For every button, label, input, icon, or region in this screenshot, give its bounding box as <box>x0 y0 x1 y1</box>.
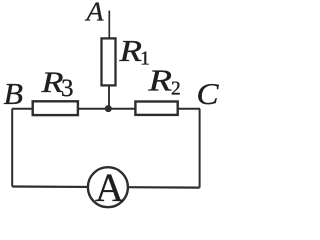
wire left branch: B down to bottom <box>11 109 13 187</box>
svg-text:2: 2 <box>171 79 181 100</box>
svg-text:R: R <box>118 34 142 68</box>
svg-text:A: A <box>84 0 104 27</box>
svg-text:A: A <box>95 165 124 210</box>
svg-text:B: B <box>4 77 24 111</box>
junction node dot <box>105 105 112 112</box>
resistor R2 <box>135 102 177 115</box>
resistor R1 <box>102 38 116 85</box>
ammeter A1 circle <box>88 167 128 207</box>
wire R1 bottom to junction node <box>108 85 110 109</box>
wire bottom through ammeter <box>12 187 199 188</box>
wire node B to node C (horizontal middle wire) <box>12 108 200 110</box>
svg-text:R: R <box>147 63 172 98</box>
resistor R3 <box>33 101 78 115</box>
svg-text:3: 3 <box>61 75 74 102</box>
svg-text:C: C <box>197 77 220 111</box>
wire right branch: C down to bottom <box>199 109 201 188</box>
wire terminal A to resistor R1 <box>108 11 110 40</box>
